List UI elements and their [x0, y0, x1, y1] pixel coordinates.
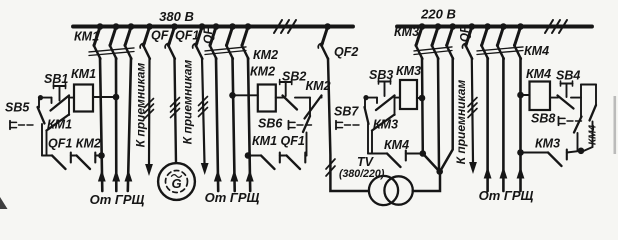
scan artifact bottom-left corner — [0, 197, 8, 209]
svg-text:К приемникам: К приемникам — [454, 80, 468, 165]
svg-text:QF: QF — [460, 25, 472, 42]
button SB5 manual actuator — [9, 121, 11, 129]
contact KM3 auxiliary (interlock in block4) — [548, 153, 562, 167]
KM2 mechanical linkage ties — [205, 51, 246, 55]
wire coil KM4 right to SB4 — [550, 97, 558, 99]
svg-text:QF1 КМ2: QF1 КМ2 — [48, 137, 101, 151]
button SB4 actuator — [561, 83, 573, 85]
wire to SB6 (block2) — [305, 155, 306, 157]
label Ot GRShch (second) — [205, 190, 260, 205]
svg-text:КМ4: КМ4 — [524, 44, 549, 58]
contact KM1 auxiliary (self-hold) — [47, 115, 70, 131]
wire between QF1 and KM2 contacts — [71, 155, 77, 157]
label SB5 — [5, 101, 30, 115]
label Ot GRShch (left) — [90, 192, 145, 207]
circuit breaker QF1 (generator) — [169, 27, 175, 46]
arrows from GRShch (left) — [98, 170, 106, 182]
wire coil KM1 to phase — [93, 96, 116, 98]
node control return junction (block1) — [98, 152, 105, 159]
circuit breaker QF (380V feeder) — [144, 27, 150, 46]
contactor KM4 main contacts (3 poles) — [482, 27, 488, 46]
wire SB4 right node — [571, 97, 581, 99]
three-phase slashes on second feeder — [199, 97, 208, 106]
label KM1 (main contacts) — [74, 30, 99, 44]
label K priyomnikam (second feeder) — [181, 60, 195, 145]
svg-text:От ГРЩ: От ГРЩ — [90, 192, 145, 207]
label G (generator) — [171, 176, 181, 191]
contact SB6 (stop button NC) — [303, 116, 310, 132]
coil KM3 — [400, 80, 417, 109]
node coil KM4 phase junction — [517, 92, 524, 99]
svg-text:КМ4: КМ4 — [384, 138, 409, 152]
svg-text:КМ3: КМ3 — [535, 137, 560, 151]
node coil KM2 phase junction — [229, 92, 236, 99]
label QF1 — [175, 29, 199, 43]
svg-text:КМ4: КМ4 — [526, 67, 551, 81]
wire KM3 pole 2 to fork — [438, 58, 439, 172]
node QF2 tap on 380V bus — [324, 23, 331, 30]
node QF rotated tap — [199, 23, 206, 30]
svg-text:КМ1: КМ1 — [47, 118, 72, 132]
label QF — [151, 29, 169, 43]
wire SB7 bottom terminal — [367, 124, 369, 154]
wire control bottom left — [42, 155, 52, 157]
wire second feeder line — [202, 58, 205, 163]
label KM3 (main contacts) — [394, 25, 419, 39]
label KM4 (interlock) — [384, 138, 409, 152]
arrow to receivers (QF feeder) — [145, 164, 153, 176]
label QF2 — [334, 45, 358, 59]
wire control bottom (block4) — [521, 152, 549, 154]
svg-text:SB2: SB2 — [282, 70, 306, 84]
svg-text:TV: TV — [357, 155, 375, 169]
wire KM1 phase lines down to GRShch — [100, 58, 102, 191]
svg-text:КМ3: КМ3 — [394, 25, 419, 39]
label SB6 — [258, 117, 283, 131]
button SB3 actuator — [379, 81, 391, 83]
label KM1 QF1 — [252, 134, 305, 148]
label SB1 — [44, 72, 68, 86]
wire KM3 pole 1 to fork — [422, 58, 440, 172]
circuit breaker QF (220V feeder) — [466, 27, 472, 46]
svg-text:К приемникам: К приемникам — [181, 60, 195, 145]
wire coil KM3 to phase line 1 — [417, 97, 422, 99]
wire QF feeder line — [148, 58, 151, 164]
node control return junction (block2) — [245, 152, 252, 159]
wire coil KM2 to phase — [233, 94, 258, 96]
wire SB7 top node — [364, 98, 366, 108]
scan artifact right edge — [614, 96, 617, 154]
bus 380V break slashes — [274, 20, 282, 33]
svg-text:SB8: SB8 — [531, 112, 555, 126]
wire transformer secondary to KM3 fork — [413, 172, 440, 191]
label KM1 (aux contact) — [47, 118, 72, 132]
button SB7 manual actuator — [335, 121, 337, 129]
label K priyomnikam (220V) — [454, 80, 468, 165]
label 380 V — [159, 9, 194, 24]
label KM3 (interlock) — [535, 137, 560, 151]
svg-text:QF1: QF1 — [175, 29, 199, 43]
contact KM4 auxiliary (interlock in block3) — [387, 154, 401, 168]
contact SB4 (start button NO) — [558, 96, 574, 109]
wire SB8 bottom terminal — [577, 133, 579, 151]
wire control bottom (block3) — [368, 153, 387, 155]
transformer TV primary winding — [369, 176, 398, 205]
wire SB2 right node — [295, 97, 310, 99]
arrows from GRShch (second) — [214, 170, 222, 182]
KM1 mechanical linkage ties — [89, 52, 134, 56]
contactor KM1 main contacts (3 poles) — [94, 27, 100, 46]
label KM4 (main contacts) — [524, 44, 549, 58]
generator G1 outer circle — [158, 163, 195, 200]
wire KM1 aux left terminal — [46, 131, 48, 156]
contact SB7 (stop button NC) — [365, 107, 369, 124]
label QF1 KM2 — [48, 137, 101, 151]
wire QF2 down to transformer — [328, 59, 369, 192]
contact SB2 (start button NO) — [283, 96, 298, 110]
label SB3 — [369, 68, 393, 82]
arrow to receivers (second feeder) — [201, 163, 209, 175]
svg-text:SB3: SB3 — [369, 68, 393, 82]
contact KM1 auxiliary (interlock in block2) — [261, 156, 275, 170]
KM3 mechanical linkage ties — [414, 51, 452, 55]
arrow to receivers (220V feeder) — [469, 162, 477, 174]
wire KM3 pole 3 to fork — [440, 58, 453, 172]
label KM3 (aux contact) — [373, 118, 398, 132]
contact SB8 (stop button NC) — [574, 117, 582, 133]
button SB2 actuator — [280, 81, 292, 83]
button SB1 actuator — [54, 85, 66, 87]
button SB6 manual actuator — [288, 121, 290, 129]
wire SB5 top node — [38, 98, 40, 108]
bus 220V break slashes — [545, 20, 553, 33]
node KM3 pole taps — [419, 23, 426, 30]
bus 220V — [397, 25, 592, 29]
circuit breaker QF (second feeder, rotated label) — [196, 27, 202, 46]
label KM2 (aux contact) — [306, 79, 331, 93]
node QF 220V tap — [469, 23, 476, 30]
svg-text:КМ4: КМ4 — [588, 125, 599, 145]
wire SB6 bottom terminal — [306, 133, 308, 156]
KM4 mechanical linkage ties — [477, 51, 523, 55]
svg-text:QF: QF — [151, 29, 169, 43]
node KM1 pole taps (junction dots) — [97, 23, 104, 30]
node KM4 pole taps — [484, 23, 491, 30]
label KM4 (rotated aux) — [588, 125, 599, 145]
svg-text:SB7: SB7 — [334, 105, 359, 119]
node coil KM3 phase junction — [419, 95, 426, 102]
svg-text:SB6: SB6 — [258, 117, 283, 131]
node KM2 pole taps — [213, 23, 220, 30]
label SB8 — [531, 112, 555, 126]
wire KM2 phase lines down to GRShch — [216, 58, 218, 191]
contact SB5 (stop button NC) — [38, 107, 45, 124]
svg-text:КМ1: КМ1 — [71, 67, 96, 81]
wire SB1 left terminal — [39, 97, 52, 99]
label QF (220V, rotated) — [460, 25, 472, 42]
node control return junction (block3) — [420, 150, 427, 157]
three-phase slashes on generator line — [171, 98, 180, 107]
wire control bottom (block2) from phase — [248, 155, 261, 157]
label 220 V — [420, 7, 456, 22]
svg-text:К приемникам: К приемникам — [134, 63, 148, 148]
arrows from GRShch (right) — [484, 167, 492, 179]
bus 380V — [73, 25, 353, 29]
circuit breaker QF2 — [322, 27, 328, 46]
label KM4 (coil) — [526, 67, 551, 81]
coil KM4 — [530, 82, 551, 111]
svg-text:380 В: 380 В — [159, 9, 194, 24]
node QF tap — [146, 23, 153, 30]
svg-text:КМ1 QF1: КМ1 QF1 — [252, 134, 305, 148]
svg-text:SB1: SB1 — [44, 72, 68, 86]
label 380/220 — [339, 168, 385, 180]
contact KM3 auxiliary (self-hold) — [372, 115, 395, 131]
contactor KM2 main contacts (3 poles) — [210, 27, 216, 46]
svg-text:КМ2: КМ2 — [306, 79, 331, 93]
label Ot GRShch (right) — [479, 188, 534, 203]
svg-text:КМ3: КМ3 — [396, 64, 421, 78]
label KM1 (coil) — [71, 67, 96, 81]
contact KM2 auxiliary (self-hold) — [305, 96, 322, 119]
svg-text:От ГРЩ: От ГРЩ — [479, 188, 534, 203]
wire coil KM2 right to SB2 — [276, 97, 283, 99]
wire KM4 interlock branch top — [581, 84, 596, 86]
wire SB3 left terminal — [365, 97, 377, 99]
contact QF1 auxiliary (interlock in block2) — [287, 156, 301, 170]
generator AC tilde — [172, 175, 182, 178]
wire SB5 bottom terminal — [41, 124, 43, 156]
wire KM3 aux left terminal — [371, 131, 373, 154]
label K priyomnikam (QF feeder) — [134, 63, 148, 148]
svg-text:КМ3: КМ3 — [373, 118, 398, 132]
wire QF 220V feeder line — [472, 58, 473, 162]
two-wire slashes on QF2 line — [326, 159, 335, 169]
three-phase slashes on QF feeder — [145, 99, 154, 108]
node QF1 tap — [171, 23, 178, 30]
label QF (rotated) — [201, 27, 215, 44]
svg-text:QF2: QF2 — [334, 45, 358, 59]
wire generator to QF1 — [175, 58, 177, 163]
contactor KM3 main contacts (3 poles) — [416, 27, 422, 46]
svg-text:КМ2: КМ2 — [250, 65, 275, 79]
svg-text:От ГРЩ: От ГРЩ — [205, 190, 260, 205]
svg-text:G: G — [171, 176, 181, 191]
wire between KM1 and QF1 contacts (block2) — [280, 155, 287, 157]
contact QF1 auxiliary (interlock) — [52, 156, 66, 170]
wire KM4 interlock branch bottom — [584, 122, 593, 151]
node control return junction (block4 left) — [517, 149, 524, 156]
node coil KM1 phase junction — [113, 94, 120, 101]
label TV — [357, 155, 375, 169]
label KM3 (coil) — [396, 64, 421, 78]
wire SB3 right node to coil — [395, 96, 401, 116]
contact SB1 (start button NO) — [51, 96, 70, 111]
contact SB3 (start button NO) — [376, 96, 395, 111]
svg-text:SB4: SB4 — [556, 69, 580, 83]
wire SB1 right node to coil — [69, 96, 74, 116]
label SB4 — [556, 69, 580, 83]
wire coil KM4 to phase line 3 — [521, 94, 530, 96]
contact KM2 auxiliary (interlock) — [77, 156, 91, 170]
label SB7 — [334, 105, 359, 119]
wire KM4 phase lines down to GRShch — [486, 58, 489, 191]
coil KM1 — [74, 85, 93, 112]
slashes on 220V feeder — [468, 98, 477, 107]
transformer TV secondary winding — [384, 176, 412, 204]
wire to SB8 junction — [567, 151, 581, 153]
wire to phase line 1 — [95, 155, 101, 157]
node SB8 bottom junction — [578, 148, 585, 155]
button SB8 manual actuator — [558, 117, 560, 125]
coil KM2 — [258, 85, 276, 112]
svg-text:КМ1: КМ1 — [74, 30, 99, 44]
svg-text:SB5: SB5 — [5, 101, 30, 115]
label KM2 (coil) — [250, 65, 275, 79]
wire to KM3 pole line — [406, 153, 423, 155]
generator G1 inner dashed circle — [166, 171, 188, 193]
svg-text:КМ2: КМ2 — [253, 48, 278, 62]
label KM2 (main contacts) — [253, 48, 278, 62]
contact KM4 auxiliary (vertical, rotated label) — [590, 105, 597, 121]
svg-text:220 В: 220 В — [420, 7, 456, 22]
label SB2 — [282, 70, 306, 84]
node KM3 fork junction — [436, 168, 443, 175]
